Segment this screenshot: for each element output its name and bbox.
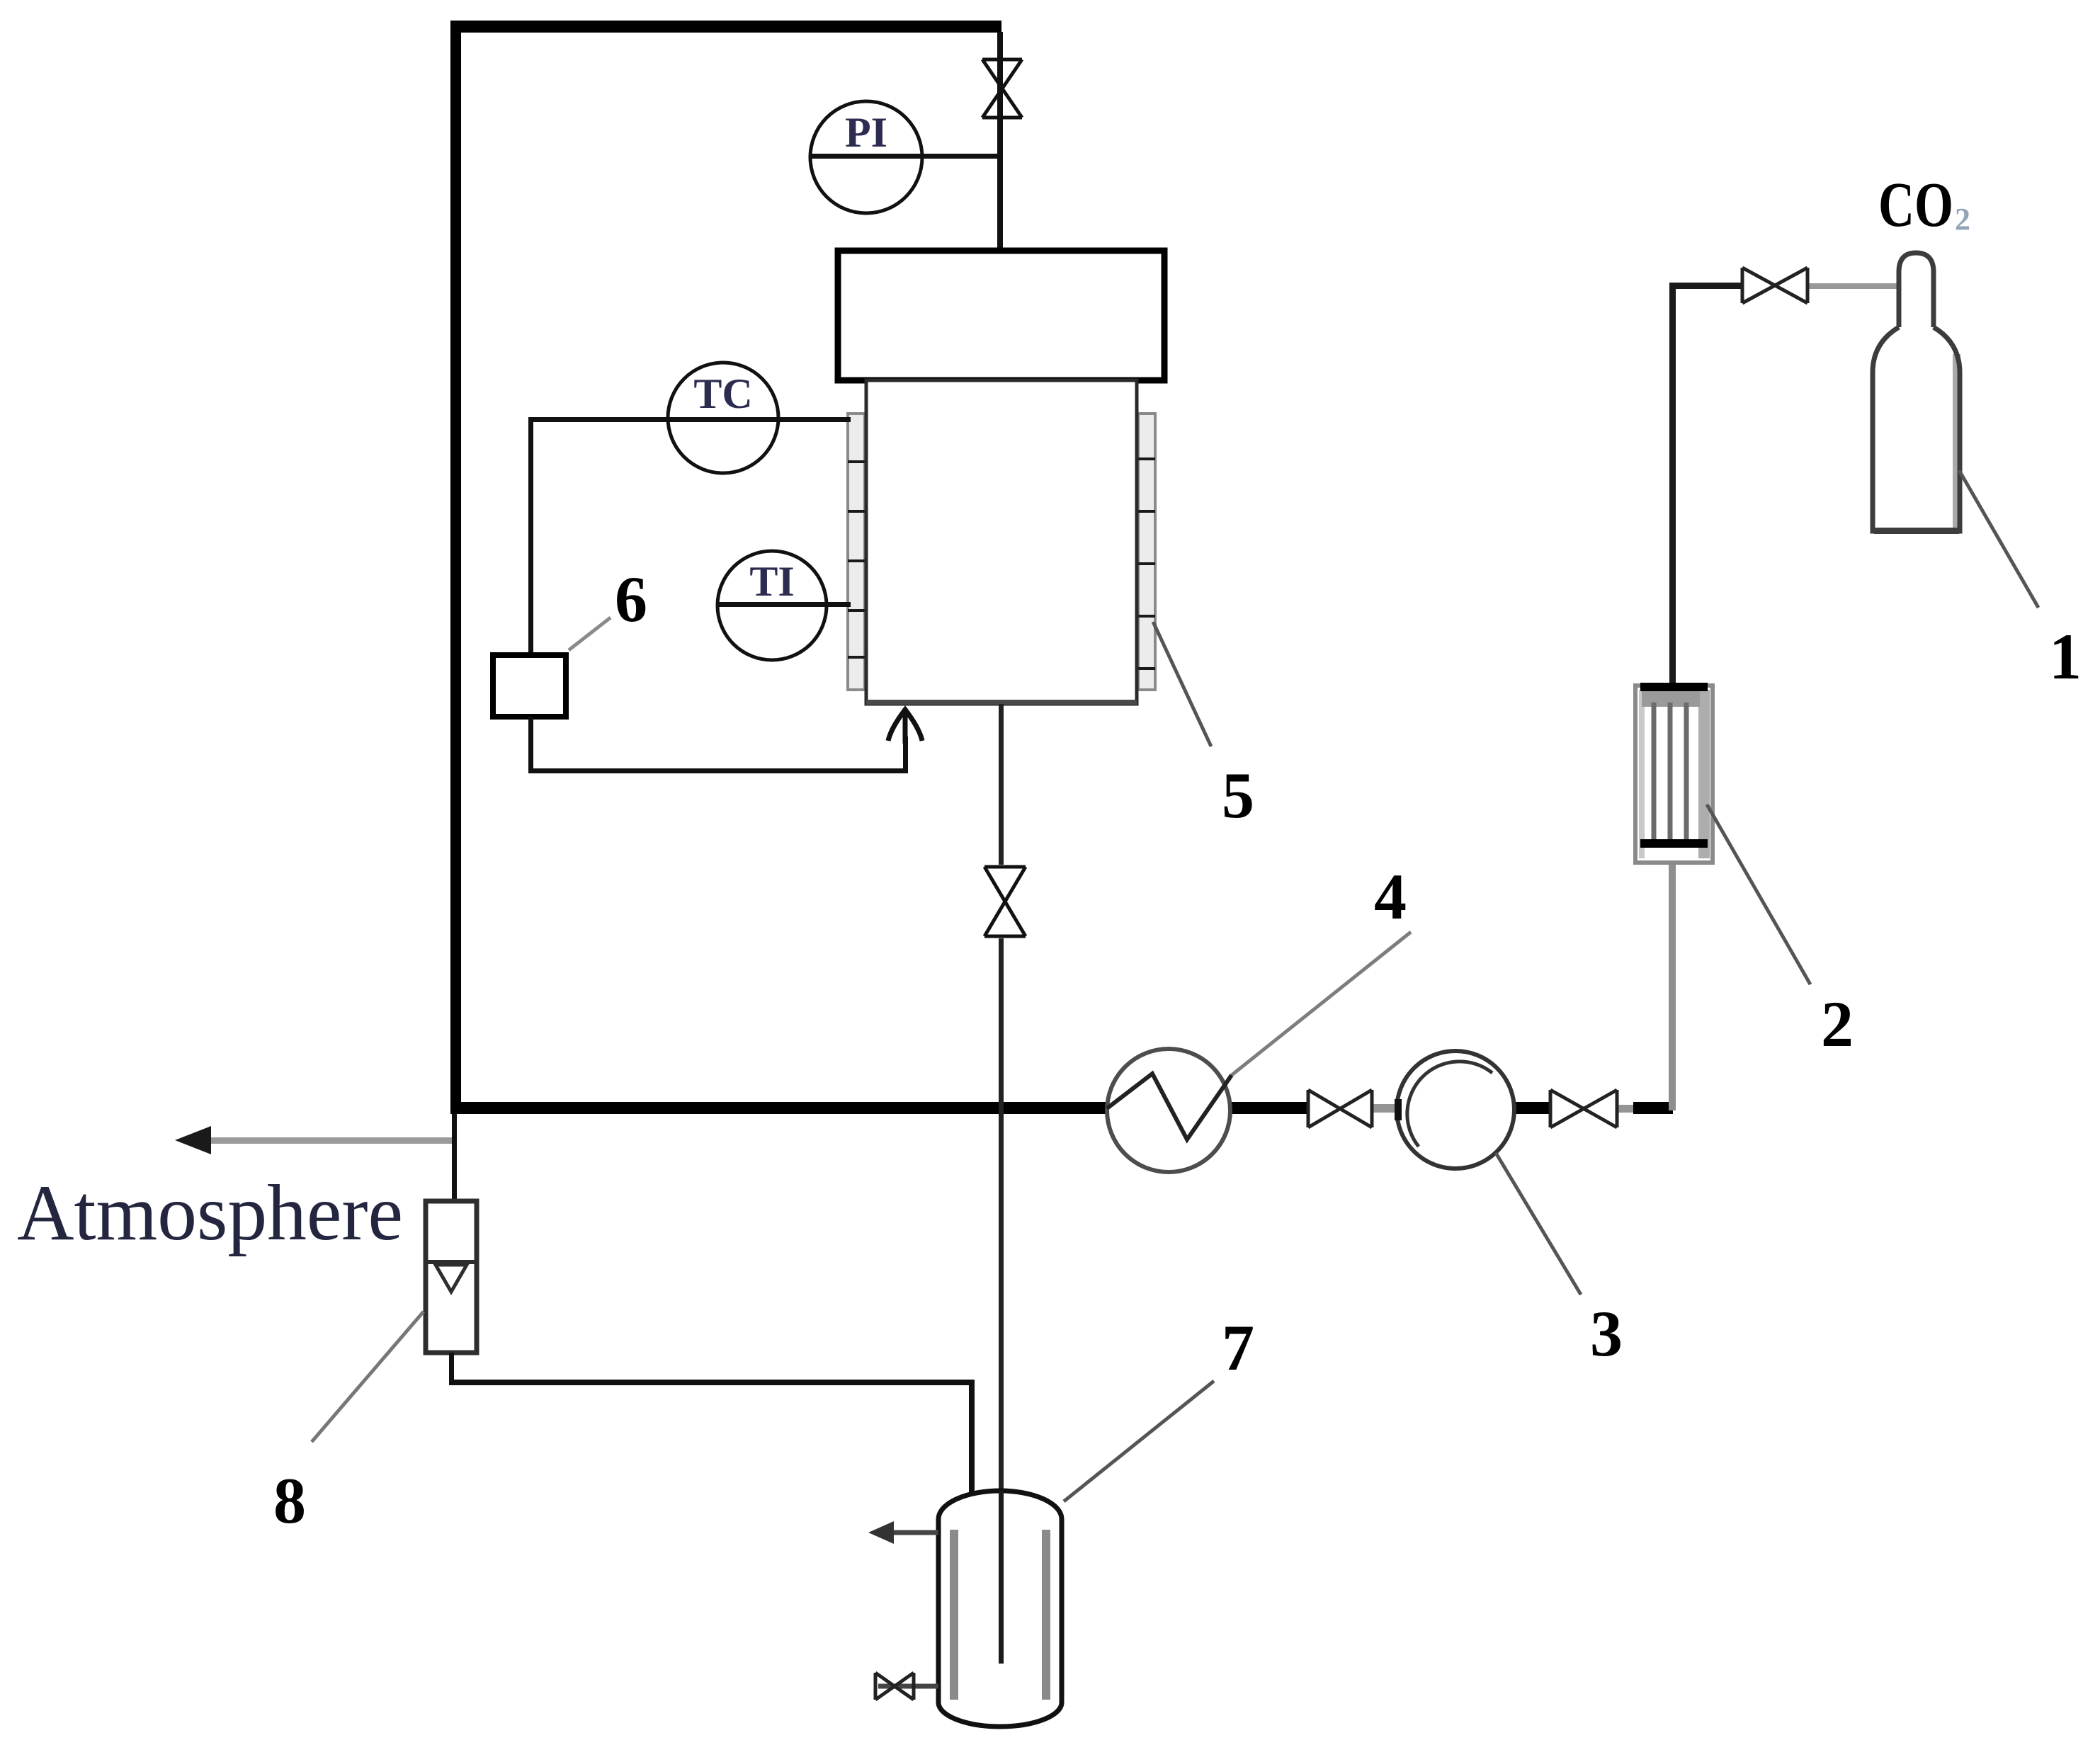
valve V3 (horizontal bowtie, pump to cooler leg) (1550, 1090, 1617, 1127)
temperature controller TC circle (668, 363, 778, 473)
wire: grey pipe valve V2 to pump (1373, 1104, 1398, 1113)
svg-text:PI: PI (845, 109, 887, 156)
leader line to label 5 (1153, 622, 1211, 746)
cooler 2 (tube bundle) (1635, 683, 1713, 863)
leader line to label 8 (312, 1312, 424, 1442)
atmosphere vent arrow (190, 1137, 453, 1144)
temperature indicator TI circle (717, 551, 827, 660)
arrow into extractor bottom (heater input) (888, 708, 922, 744)
separator 7 vessel (938, 1491, 1062, 1727)
rotameter 8 (426, 1201, 477, 1353)
svg-text:TI: TI (749, 558, 794, 605)
heat exchanger 4 circle (1107, 1049, 1230, 1172)
leader line to label 3 (1496, 1153, 1581, 1295)
wire: bottom thick pipe from left loop to heat exchanger (450, 1102, 1108, 1114)
svg-text:6: 6 (615, 563, 647, 635)
wire: thin line from bottom pipe to rotameter (452, 1114, 457, 1203)
pump 3 circle (1397, 1051, 1514, 1169)
pressure indicator PI line (810, 154, 1000, 159)
extractor 5 body (866, 380, 1137, 704)
wire: vertical pipe from top header down to extractor head (997, 32, 1003, 252)
svg-text:TC: TC (693, 370, 752, 417)
svg-text:2: 2 (1955, 202, 1970, 237)
wire: extractor bottom outlet vertical pipe (999, 704, 1004, 865)
svg-text:1: 1 (2049, 620, 2082, 693)
wire: rotameter bottom to separator (449, 1353, 454, 1385)
wire: right vertical pipe cooler to top corner (1669, 285, 1676, 686)
heat exchanger 4 zigzag (1107, 1074, 1232, 1139)
CO2 cylinder 1 (1953, 354, 1960, 530)
svg-text:5: 5 (1222, 759, 1254, 831)
leader line to label 6 (569, 618, 611, 650)
svg-text:3: 3 (1590, 1297, 1623, 1370)
valve V4 (horizontal bowtie near CO2 cylinder) (1742, 268, 1807, 303)
leader line to label 2 (1707, 805, 1810, 984)
extractor heating jacket left (848, 414, 865, 690)
valve V2 (horizontal bowtie, HX to pump) (1308, 1090, 1372, 1127)
wire: top pipe corner to valve V4 (1669, 283, 1741, 289)
wire: top thick header pipe (450, 21, 1001, 33)
leader line to label 7 (1064, 1381, 1214, 1501)
valve V5 on extractor outlet (vertical bowtie) (984, 867, 1026, 936)
svg-text:CO: CO (1878, 170, 1953, 240)
controller 6 box (493, 655, 566, 717)
wire: grey pipe valve V4 to CO2 cylinder (1807, 283, 1898, 289)
wire: left thick vertical pipe (450, 21, 461, 1111)
wire: thick pipe from heat exchanger to valve V2 (1229, 1102, 1308, 1114)
leader line to label 4 (1232, 932, 1411, 1075)
separator bottom nozzle with valve (878, 1684, 938, 1689)
extractor heating jacket right (1138, 414, 1155, 690)
pressure indicator PI circle (810, 101, 922, 213)
wire: thick pipe pump to valve V3 (1513, 1102, 1550, 1114)
svg-text:8: 8 (273, 1465, 306, 1537)
valve V1 on extractor top vent (vertical bowtie) (982, 59, 1022, 118)
svg-text:7: 7 (1222, 1312, 1254, 1384)
wire: pipe valve V3 to corner (1617, 1105, 1637, 1113)
wire: control loop bottom run to heater arrow (528, 717, 533, 772)
leader line to label 1 (1959, 470, 2038, 608)
wire: control loop left vertical down to controller box (528, 417, 533, 655)
svg-text:4: 4 (1374, 860, 1407, 933)
svg-text:Atmosphere: Atmosphere (17, 1169, 403, 1257)
temperature controller TC line (528, 417, 851, 422)
wire: right vertical grey pipe below cooler (1669, 863, 1676, 1110)
temperature indicator TI line (717, 602, 851, 607)
extractor head (top flange block) (838, 251, 1164, 380)
separator stirrer shaft (999, 1491, 1004, 1664)
separator top nozzle with valve (878, 1530, 938, 1535)
separator inner walls (950, 1530, 958, 1700)
svg-text:2: 2 (1821, 988, 1854, 1060)
